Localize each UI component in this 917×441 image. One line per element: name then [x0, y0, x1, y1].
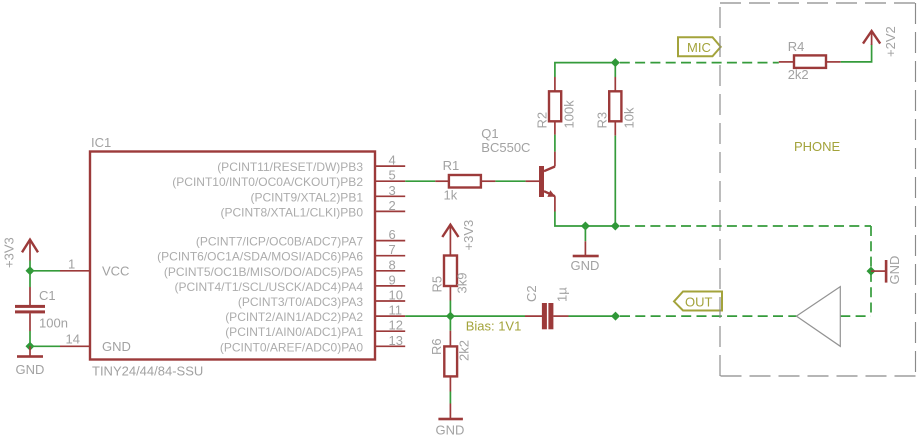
- wire dashed GND net down: [870, 226, 872, 316]
- svg-text:2k2: 2k2: [788, 67, 809, 82]
- node VCC junction: [26, 266, 35, 275]
- pin PA3 (10): [238, 288, 405, 310]
- svg-text:(PCINT5/OC1B/MISO/DO/ADC5)PA5: (PCINT5/OC1B/MISO/DO/ADC5)PA5: [164, 265, 363, 279]
- wire node to R6: [449, 316, 451, 331]
- transistor Q1: [481, 126, 555, 212]
- node emitter GND junction: [581, 222, 590, 231]
- pin PB2 (5): [172, 168, 405, 190]
- resistor R4: [779, 39, 841, 82]
- resistor R2: [535, 77, 577, 135]
- svg-text:1µ: 1µ: [555, 287, 570, 302]
- svg-text:R2: R2: [535, 112, 550, 129]
- supply +2V2: [863, 26, 898, 57]
- svg-text:(PCINT11/RESET/DW)PB3: (PCINT11/RESET/DW)PB3: [217, 160, 363, 174]
- svg-text:3: 3: [389, 183, 396, 198]
- svg-text:IC1: IC1: [91, 135, 111, 150]
- ground GND (left): [16, 346, 45, 377]
- svg-text:+3V3: +3V3: [2, 237, 17, 268]
- pin PA5 (8): [164, 257, 405, 279]
- wire R3 bottom to GND rail: [614, 136, 616, 226]
- node bias junction: [446, 312, 455, 321]
- ground GND (under Q1): [571, 241, 600, 273]
- wire emitter to GND rail: [555, 212, 615, 227]
- wire R2 top to node: [555, 63, 615, 77]
- svg-text:GND: GND: [571, 258, 600, 273]
- resistor R3: [595, 63, 637, 136]
- pin PA2 (11): [225, 303, 405, 325]
- pin PB1 (3): [251, 183, 406, 205]
- svg-text:10: 10: [389, 288, 403, 303]
- frame PHONE dashed box: [720, 3, 916, 376]
- wire node to ground: [584, 226, 586, 241]
- wire +3V3 to node: [29, 261, 31, 271]
- wire R1 to Q1 base: [495, 180, 525, 182]
- svg-text:(PCINT10/INT0/OC0A/CKOUT)PB2: (PCINT10/INT0/OC0A/CKOUT)PB2: [172, 175, 363, 189]
- pin PA6 (7): [157, 242, 405, 264]
- resistor R1: [435, 158, 495, 203]
- svg-text:C2: C2: [524, 285, 539, 302]
- svg-text:14: 14: [66, 331, 80, 346]
- svg-text:7: 7: [389, 242, 396, 257]
- pin GND (14): [60, 331, 131, 354]
- node GND junction: [26, 342, 35, 351]
- svg-text:(PCINT2/AIN1/ADC2)PA2: (PCINT2/AIN1/ADC2)PA2: [225, 310, 363, 324]
- wire node to pin 1: [30, 270, 60, 272]
- wire +3V3 to R5: [442, 220, 476, 256]
- pin PB0 (2): [221, 198, 406, 220]
- wire pin 11 to node: [405, 315, 450, 317]
- svg-text:TINY24/44/84-SSU: TINY24/44/84-SSU: [92, 364, 203, 379]
- wire dashed speaker to GND net: [840, 315, 871, 317]
- svg-text:2: 2: [389, 198, 396, 213]
- svg-text:GND: GND: [102, 339, 131, 354]
- wire C1 to node 14: [29, 331, 31, 346]
- svg-text:PHONE: PHONE: [794, 139, 841, 154]
- flag MIC: [678, 37, 721, 56]
- svg-text:3k9: 3k9: [455, 273, 470, 294]
- svg-text:C1: C1: [39, 288, 56, 303]
- svg-text:MIC: MIC: [687, 40, 711, 55]
- svg-text:R5: R5: [430, 276, 445, 293]
- wire R4 to +2V2: [841, 44, 872, 62]
- flag OUT: [674, 292, 722, 311]
- svg-text:GND: GND: [436, 423, 465, 438]
- svg-text:11: 11: [389, 303, 403, 318]
- svg-text:10k: 10k: [621, 107, 636, 128]
- pin PA1 (12): [225, 318, 405, 340]
- svg-text:2k2: 2k2: [457, 340, 472, 361]
- svg-text:+3V3: +3V3: [461, 220, 476, 251]
- wire C2 to node: [569, 315, 616, 317]
- svg-text:BC550C: BC550C: [481, 140, 530, 155]
- svg-text:GND: GND: [887, 256, 902, 285]
- pin PA4 (9): [175, 272, 406, 294]
- svg-text:9: 9: [389, 272, 396, 287]
- wire dashed GND net into phone: [620, 225, 871, 227]
- svg-text:VCC: VCC: [102, 263, 129, 278]
- svg-text:Bias: 1V1: Bias: 1V1: [466, 319, 522, 334]
- wire R5 to node: [449, 301, 451, 317]
- pin PA7 (6): [196, 227, 405, 249]
- ground GND (under R6): [436, 404, 465, 438]
- wire R6 to ground: [449, 392, 451, 404]
- capacitor C2: [524, 285, 570, 329]
- svg-text:(PCINT6/OC1A/SDA/MOSI/ADC6)PA6: (PCINT6/OC1A/SDA/MOSI/ADC6)PA6: [157, 250, 363, 264]
- svg-text:8: 8: [389, 257, 396, 272]
- svg-text:100n: 100n: [39, 316, 68, 331]
- wire node to pin 14: [30, 345, 60, 347]
- svg-text:(PCINT1/AIN0/ADC1)PA1: (PCINT1/AIN0/ADC1)PA1: [225, 325, 363, 339]
- speaker: [796, 287, 840, 347]
- svg-text:12: 12: [389, 318, 403, 333]
- svg-text:GND: GND: [16, 362, 45, 377]
- node OUT junction: [611, 312, 620, 321]
- pin PA0 (13): [220, 333, 405, 355]
- pin PB3 (4): [217, 153, 405, 175]
- svg-text:+2V2: +2V2: [883, 26, 898, 57]
- svg-text:6: 6: [389, 227, 396, 242]
- node MIC junction: [611, 58, 620, 67]
- svg-text:(PCINT0/AREF/ADC0)PA0: (PCINT0/AREF/ADC0)PA0: [220, 340, 363, 354]
- svg-text:R4: R4: [788, 39, 805, 54]
- svg-text:Q1: Q1: [481, 126, 498, 141]
- svg-text:R6: R6: [429, 338, 444, 355]
- svg-text:(PCINT9/XTAL2)PB1: (PCINT9/XTAL2)PB1: [251, 190, 364, 204]
- capacitor C1: [15, 287, 68, 331]
- svg-text:4: 4: [389, 153, 396, 168]
- wire dashed OUT net: [620, 315, 796, 317]
- svg-text:R1: R1: [443, 158, 460, 173]
- wire Q1 collector to R2: [554, 135, 556, 152]
- svg-text:5: 5: [389, 168, 396, 183]
- svg-text:13: 13: [389, 333, 403, 348]
- svg-text:1k: 1k: [444, 188, 458, 203]
- svg-text:1: 1: [68, 256, 75, 271]
- svg-text:(PCINT8/XTAL1/CLKI)PB0: (PCINT8/XTAL1/CLKI)PB0: [221, 205, 364, 219]
- op-amp IC1 box: [90, 152, 375, 360]
- svg-text:R3: R3: [595, 112, 610, 129]
- ground GND (phone, rotated): [871, 256, 902, 285]
- svg-text:(PCINT4/T1/SCL/USCK/ADC4)PA4: (PCINT4/T1/SCL/USCK/ADC4)PA4: [175, 280, 364, 294]
- svg-text:(PCINT7/ICP/OC0B/ADC7)PA7: (PCINT7/ICP/OC0B/ADC7)PA7: [196, 235, 363, 249]
- node phone GND junction: [867, 267, 876, 276]
- wire dashed MIC net: [620, 62, 779, 64]
- svg-text:100k: 100k: [562, 100, 577, 129]
- wire node down to C1: [29, 271, 31, 287]
- node R3 GND junction: [611, 222, 620, 231]
- supply +3V3 (left): [2, 237, 39, 268]
- resistor R6: [429, 331, 472, 392]
- svg-text:(PCINT3/T0/ADC3)PA3: (PCINT3/T0/ADC3)PA3: [238, 295, 363, 309]
- resistor R5: [430, 256, 470, 301]
- wire node to C2: [450, 315, 525, 317]
- wire pin 5 to R1: [405, 180, 435, 182]
- pin VCC (1): [60, 256, 129, 278]
- svg-text:OUT: OUT: [685, 295, 713, 310]
